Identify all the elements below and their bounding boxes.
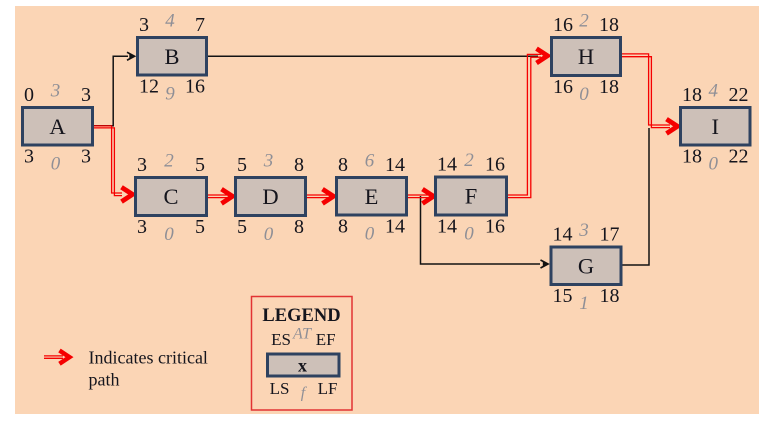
wire B to H (black horizontal) (208, 55, 538, 57)
svg-text:2: 2 (579, 11, 589, 32)
svg-text:15: 15 (553, 285, 573, 307)
critical arrowhead into E (323, 189, 334, 203)
node D box (236, 178, 306, 216)
svg-text:8: 8 (338, 154, 348, 176)
svg-text:EF: EF (316, 330, 336, 349)
svg-text:18: 18 (599, 76, 619, 98)
svg-text:22: 22 (729, 146, 749, 168)
svg-text:I: I (712, 114, 720, 139)
wire G to I junction (black elbow) (623, 128, 650, 265)
svg-text:LF: LF (318, 379, 338, 398)
svg-text:0: 0 (579, 84, 589, 105)
svg-text:8: 8 (338, 216, 348, 238)
critical wire C to D (208, 194, 227, 196)
svg-text:3: 3 (24, 146, 34, 168)
svg-text:17: 17 (600, 224, 620, 246)
svg-text:3: 3 (81, 84, 91, 106)
svg-text:path: path (89, 370, 120, 390)
svg-text:18: 18 (599, 14, 619, 36)
svg-text:5: 5 (237, 154, 247, 176)
node B box (138, 38, 207, 76)
svg-text:Indicates critical: Indicates critical (89, 348, 208, 368)
node F box (436, 177, 507, 215)
svg-text:F: F (465, 184, 478, 209)
critical wire F to H (red double elbow) (508, 54, 541, 195)
svg-text:3: 3 (139, 14, 149, 36)
svg-text:LS: LS (270, 379, 290, 398)
svg-text:3: 3 (137, 154, 147, 176)
svg-text:0: 0 (24, 84, 34, 106)
svg-text:16: 16 (485, 216, 505, 238)
svg-text:2: 2 (464, 150, 474, 171)
arrowhead into B (127, 52, 135, 60)
svg-text:5: 5 (195, 154, 205, 176)
svg-text:18: 18 (600, 285, 620, 307)
legend sample box (268, 354, 340, 376)
svg-text:0: 0 (709, 154, 719, 175)
node I box (681, 108, 751, 146)
svg-text:14: 14 (437, 154, 457, 176)
svg-text:18: 18 (682, 84, 702, 106)
critical wire D to E (307, 194, 328, 196)
svg-text:x: x (298, 356, 307, 376)
svg-text:14: 14 (385, 154, 405, 176)
svg-text:18: 18 (682, 146, 702, 168)
node C box (136, 178, 207, 216)
svg-text:5: 5 (237, 216, 247, 238)
svg-text:0: 0 (365, 224, 375, 245)
svg-text:22: 22 (729, 84, 749, 106)
svg-text:14: 14 (437, 216, 457, 238)
wire EF junction down to G (421, 196, 541, 264)
svg-text:14: 14 (553, 224, 573, 246)
svg-text:0: 0 (164, 224, 174, 245)
svg-text:16: 16 (553, 14, 573, 36)
critical wire E to F (408, 194, 428, 196)
node G box (551, 247, 621, 285)
svg-text:4: 4 (165, 11, 175, 32)
svg-text:16: 16 (553, 76, 573, 98)
svg-text:6: 6 (365, 151, 375, 172)
svg-text:8: 8 (294, 154, 304, 176)
svg-text:4: 4 (709, 81, 719, 102)
svg-text:E: E (365, 184, 379, 209)
svg-text:3: 3 (578, 220, 589, 241)
svg-text:16: 16 (185, 76, 205, 98)
svg-text:C: C (163, 184, 178, 209)
svg-text:14: 14 (385, 216, 405, 238)
node E box (337, 178, 407, 216)
svg-text:0: 0 (464, 224, 474, 245)
svg-text:3: 3 (81, 146, 91, 168)
svg-text:A: A (49, 114, 66, 139)
critical arrowhead into H (537, 49, 548, 63)
svg-text:AT: AT (292, 326, 312, 343)
legend box (red border) (252, 297, 353, 411)
node H box (552, 38, 621, 76)
svg-text:3: 3 (50, 81, 61, 102)
svg-text:12: 12 (139, 76, 159, 98)
critical arrowhead into D (222, 189, 233, 203)
critical arrowhead into C (122, 187, 133, 201)
svg-text:ES: ES (271, 330, 291, 349)
legend critical-path arrow sample (44, 355, 63, 357)
svg-text:16: 16 (485, 154, 505, 176)
svg-text:G: G (578, 253, 594, 278)
svg-text:3: 3 (263, 151, 274, 172)
critical arrowhead into I (667, 119, 678, 133)
node A box (23, 108, 93, 146)
svg-text:D: D (262, 184, 278, 209)
svg-text:0: 0 (264, 224, 274, 245)
svg-text:LEGEND: LEGEND (262, 306, 340, 326)
svg-text:5: 5 (195, 216, 205, 238)
critical wire A to C (red double elbow) (94, 126, 122, 193)
critical arrowhead into F (423, 189, 434, 203)
svg-text:8: 8 (294, 216, 304, 238)
svg-text:7: 7 (195, 14, 205, 36)
critical wire H to I (red double elbow) (622, 54, 670, 125)
arrowhead into G (541, 260, 549, 268)
svg-text:9: 9 (165, 84, 175, 105)
svg-text:3: 3 (137, 216, 147, 238)
svg-text:0: 0 (51, 154, 61, 175)
wire A to B (black elbow) (94, 56, 128, 126)
svg-text:1: 1 (579, 293, 589, 314)
svg-text:H: H (578, 44, 594, 69)
svg-text:2: 2 (164, 151, 174, 172)
svg-text:B: B (164, 44, 179, 69)
